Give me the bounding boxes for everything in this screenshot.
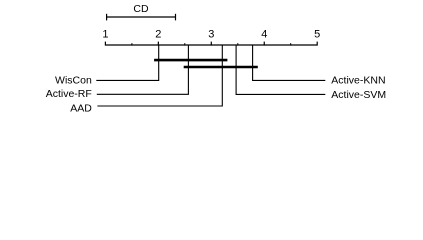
axis line xyxy=(105,44,317,46)
svg-text:WisCon: WisCon xyxy=(55,75,92,87)
svg-text:2: 2 xyxy=(155,28,161,40)
svg-text:Active-RF: Active-RF xyxy=(46,88,92,100)
clique bar 1 xyxy=(154,59,227,62)
svg-text:4: 4 xyxy=(261,28,267,40)
svg-text:3: 3 xyxy=(208,28,214,40)
method line Active-SVM xyxy=(236,45,325,95)
svg-text:AAD: AAD xyxy=(70,103,92,115)
CD bracket xyxy=(107,14,176,21)
svg-text:CD: CD xyxy=(133,3,149,15)
major ticks xyxy=(105,42,317,46)
clique bar 2 xyxy=(184,66,258,69)
svg-text:5: 5 xyxy=(314,28,320,40)
svg-text:1: 1 xyxy=(102,28,108,40)
method line WisCon xyxy=(96,45,158,81)
method line Active-KNN xyxy=(253,45,326,81)
method line AAD xyxy=(97,45,222,107)
method line Active-RF xyxy=(97,45,189,95)
minor ticks xyxy=(132,43,291,46)
svg-text:Active-KNN: Active-KNN xyxy=(331,75,385,87)
svg-text:Active-SVM: Active-SVM xyxy=(331,89,386,101)
